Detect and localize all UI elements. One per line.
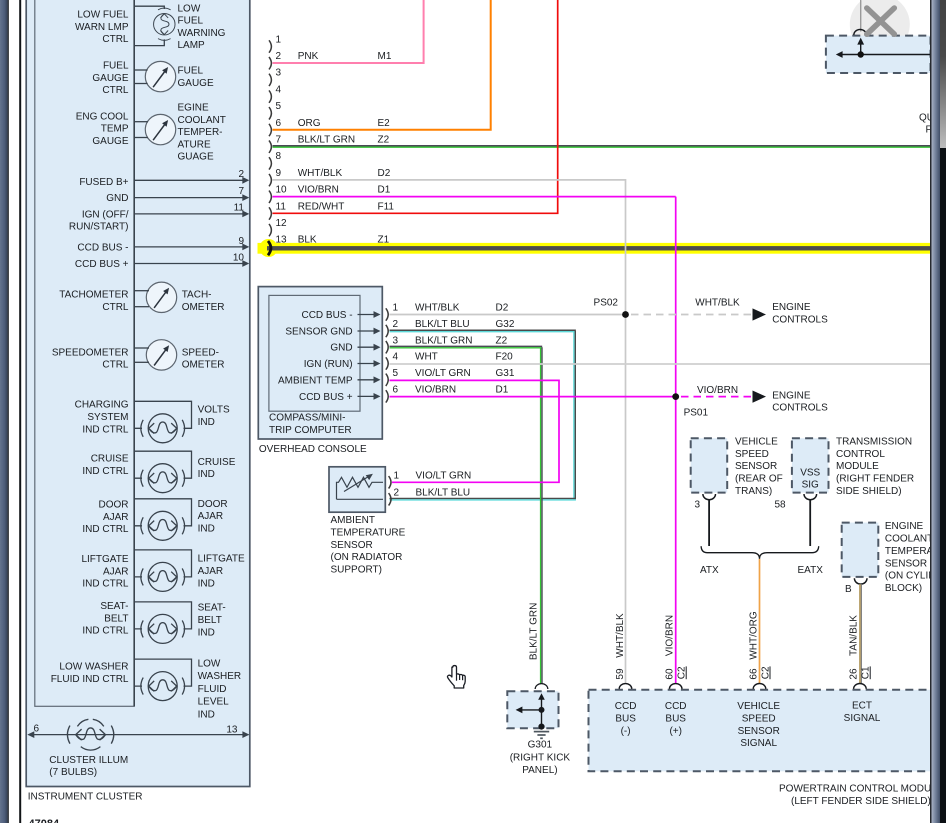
svg-text:SENSOR: SENSOR <box>331 540 373 551</box>
engine coolant temperature sensor box <box>842 521 946 595</box>
svg-text:FLUID: FLUID <box>198 684 227 695</box>
svg-text:7: 7 <box>276 135 282 146</box>
instrument cluster inner label box <box>35 0 134 706</box>
svg-text:PNK: PNK <box>298 51 319 62</box>
door ajar ind lamp <box>134 499 191 541</box>
svg-text:TEMPER-: TEMPER- <box>178 127 223 138</box>
svg-text:CCD BUS +: CCD BUS + <box>75 259 129 270</box>
wire WHT/BLK D2 (pin 9) <box>273 180 626 315</box>
thermistor symbol <box>337 474 384 500</box>
svg-text:DOOR: DOOR <box>198 499 228 510</box>
fuel gauge symbol <box>134 61 176 91</box>
svg-text:BLK/LT GRN: BLK/LT GRN <box>529 603 540 660</box>
svg-text:59: 59 <box>615 668 626 680</box>
instrument cluster outer box <box>26 0 250 787</box>
svg-text:3: 3 <box>393 335 399 346</box>
svg-text:AMBIENT: AMBIENT <box>331 515 375 526</box>
svg-text:(REAR OF: (REAR OF <box>735 474 783 485</box>
svg-text:SIGNAL: SIGNAL <box>844 713 881 724</box>
svg-text:TRANSMISSION: TRANSMISSION <box>836 436 912 447</box>
svg-text:CCD BUS -: CCD BUS - <box>301 310 352 321</box>
wire BLK/LT GRN Z2 (pin 7) horizontal two-tone <box>273 146 931 147</box>
wire TCM pin 58 <box>809 500 811 546</box>
svg-text:VIO/LT GRN: VIO/LT GRN <box>415 368 471 379</box>
svg-text:AJAR: AJAR <box>103 566 129 577</box>
wire VIO/BRN D1 (pin 10) <box>273 196 676 198</box>
svg-text:TAN/BLK: TAN/BLK <box>849 615 860 656</box>
svg-text:D1: D1 <box>496 385 509 396</box>
svg-text:AJAR: AJAR <box>103 512 129 523</box>
svg-text:58: 58 <box>775 500 787 511</box>
svg-text:GAUGE: GAUGE <box>92 136 128 147</box>
svg-text:CCD: CCD <box>665 701 687 712</box>
svg-text:CONTROLS: CONTROLS <box>772 314 828 325</box>
svg-text:2: 2 <box>394 488 400 499</box>
top-right box internal wire <box>836 38 931 58</box>
svg-text:3: 3 <box>276 68 282 79</box>
svg-text:WARNING: WARNING <box>178 28 226 39</box>
svg-text:CONTROL: CONTROL <box>836 449 885 460</box>
PCM pin labels <box>615 701 881 750</box>
dashed VIO/BRN to engine controls <box>681 385 828 414</box>
gnd pin arrow 7 <box>134 186 249 201</box>
svg-text:CTRL: CTRL <box>102 34 129 45</box>
fused B+ pin arrow 2 <box>134 169 249 184</box>
svg-text:6: 6 <box>276 118 282 129</box>
svg-text:GUAGE: GUAGE <box>178 152 214 163</box>
svg-text:LIFTGATE: LIFTGATE <box>81 554 128 565</box>
svg-text:8: 8 <box>276 151 282 162</box>
svg-text:WARN LMP: WARN LMP <box>75 22 129 33</box>
svg-text:PS01: PS01 <box>684 408 709 419</box>
sensor captions <box>331 515 406 576</box>
svg-text:WHT: WHT <box>415 352 438 363</box>
svg-text:ATX: ATX <box>700 565 719 576</box>
svg-text:VIO/LT GRN: VIO/LT GRN <box>416 471 472 482</box>
svg-text:SENSOR GND: SENSOR GND <box>285 327 352 338</box>
svg-text:C2: C2 <box>761 666 772 679</box>
low fuel warning lamp symbol <box>134 6 175 45</box>
brace joining ATX/EATX <box>701 546 819 559</box>
svg-text:FUEL: FUEL <box>178 16 204 27</box>
svg-text:SPEED: SPEED <box>742 713 776 724</box>
svg-text:VIO/BRN: VIO/BRN <box>298 185 339 196</box>
ccd bus - pin arrow 9 <box>134 236 249 250</box>
pin 13 connector arc (black over highlight) <box>268 241 271 255</box>
tachometer symbol <box>134 282 177 312</box>
svg-text:IND CTRL: IND CTRL <box>82 524 129 535</box>
svg-text:CRUISE: CRUISE <box>198 457 236 468</box>
wire VIO/BRN D1 console pin6 <box>390 396 676 398</box>
svg-text:SIGNAL: SIGNAL <box>740 738 777 749</box>
wire PNK M1 (pin 2) <box>273 0 424 63</box>
svg-text:FUEL: FUEL <box>178 66 204 77</box>
svg-text:LOW: LOW <box>198 658 221 669</box>
splice PS02 <box>594 298 629 318</box>
svg-text:Z2: Z2 <box>378 135 390 146</box>
svg-text:IND: IND <box>198 627 215 638</box>
svg-text:BLK: BLK <box>298 235 317 246</box>
svg-text:IND: IND <box>198 524 215 535</box>
svg-text:BLK/LT BLU: BLK/LT BLU <box>415 319 470 330</box>
svg-text:4: 4 <box>276 84 282 95</box>
svg-text:COMPASS/MINI-: COMPASS/MINI- <box>269 412 345 423</box>
svg-text:IND CTRL: IND CTRL <box>82 579 129 590</box>
svg-text:Z2: Z2 <box>496 335 508 346</box>
svg-text:SENSOR: SENSOR <box>735 461 777 472</box>
svg-text:ENG COOL: ENG COOL <box>76 112 129 123</box>
wire WHT/BLK vertical PS02 to PCM <box>625 315 627 684</box>
wire VIO/LT GRN G31 console pin5 <box>390 380 560 482</box>
svg-text:VSS: VSS <box>800 467 820 478</box>
svg-text:LOW WASHER: LOW WASHER <box>59 662 128 673</box>
svg-text:SPEEDOMETER: SPEEDOMETER <box>52 347 129 358</box>
svg-text:SPEED: SPEED <box>735 449 769 460</box>
svg-text:LIFTGATE: LIFTGATE <box>198 554 245 565</box>
svg-text:WHT/BLK: WHT/BLK <box>415 303 460 314</box>
svg-text:CCD BUS +: CCD BUS + <box>299 392 353 403</box>
svg-text:ATURE: ATURE <box>178 139 211 150</box>
svg-text:CONTROLS: CONTROLS <box>772 403 828 414</box>
svg-text:(+): (+) <box>669 726 682 737</box>
svg-text:F20: F20 <box>496 352 514 363</box>
svg-text:TEMP: TEMP <box>101 124 129 135</box>
svg-text:BLK/LT BLU: BLK/LT BLU <box>416 488 471 499</box>
wire RED/WHT F11 (pin 11) <box>273 0 558 213</box>
svg-text:CCD: CCD <box>615 701 637 712</box>
svg-text:6: 6 <box>34 724 40 735</box>
close button X <box>867 8 895 34</box>
svg-text:WHT/ORG: WHT/ORG <box>749 611 760 660</box>
seat-belt ind lamp <box>134 602 191 644</box>
sensor connector labels <box>394 471 472 499</box>
svg-text:10: 10 <box>276 185 288 196</box>
svg-text:TACH-: TACH- <box>182 290 212 301</box>
svg-text:VIO/BRN: VIO/BRN <box>697 385 738 396</box>
svg-text:G301: G301 <box>528 740 553 751</box>
transmission control module box <box>775 436 915 510</box>
svg-text:EATX: EATX <box>798 565 824 576</box>
svg-text:9: 9 <box>238 236 244 247</box>
svg-text:2: 2 <box>393 319 399 330</box>
svg-text:VOLTS: VOLTS <box>198 405 230 416</box>
svg-text:COOLANT: COOLANT <box>885 534 933 545</box>
wire into top-right dashed box <box>860 0 862 32</box>
svg-text:FUEL: FUEL <box>103 61 129 72</box>
cluster illumination bulbs wire 6-13 <box>27 724 249 738</box>
svg-text:GND: GND <box>330 343 352 354</box>
hand cursor <box>447 666 465 688</box>
cluster left labels <box>51 10 129 685</box>
sensor connector arcs <box>389 476 391 505</box>
svg-text:F11: F11 <box>378 201 395 212</box>
svg-text:7: 7 <box>238 186 244 197</box>
svg-text:CCD BUS -: CCD BUS - <box>77 242 128 253</box>
speedometer symbol <box>134 340 177 370</box>
svg-text:(7 BULBS): (7 BULBS) <box>49 767 97 778</box>
cluster connector pins 1-13 <box>269 40 271 236</box>
svg-text:CTRL: CTRL <box>102 302 129 313</box>
left window strip <box>0 0 9 823</box>
wire TAN/BLK ECT pin B <box>860 584 861 684</box>
svg-text:CRUISE: CRUISE <box>91 454 129 465</box>
svg-text:DOOR: DOOR <box>99 499 129 510</box>
wire VIO/BRN vertical to PS01 and PCM <box>675 197 677 684</box>
G301 internal arrows and ground <box>516 693 550 738</box>
svg-text:SEAT-: SEAT- <box>198 603 226 614</box>
svg-text:EGINE: EGINE <box>178 103 209 114</box>
svg-text:ORG: ORG <box>298 118 321 129</box>
svg-text:2: 2 <box>276 51 282 62</box>
svg-text:1: 1 <box>276 34 282 45</box>
cluster illumination bulb symbol <box>67 719 113 750</box>
svg-text:IND: IND <box>198 578 215 589</box>
overhead console box <box>258 287 382 439</box>
svg-text:(RIGHT FENDER: (RIGHT FENDER <box>836 474 914 485</box>
console pin arrows <box>358 311 381 400</box>
svg-text:FLUID IND CTRL: FLUID IND CTRL <box>51 674 129 685</box>
wire WHT/BLK D2 console pin1 <box>390 314 626 316</box>
svg-text:WASHER: WASHER <box>198 671 242 682</box>
svg-text:SPEED-: SPEED- <box>182 347 219 358</box>
svg-text:OMETER: OMETER <box>182 302 225 313</box>
svg-text:LEVEL: LEVEL <box>198 697 230 708</box>
cluster right-side component name labels <box>178 3 245 720</box>
dashed WHT/BLK to engine controls <box>631 297 828 325</box>
svg-text:VEHICLE: VEHICLE <box>737 701 780 712</box>
divider line (inner box right edge) <box>133 0 135 706</box>
svg-text:IND: IND <box>198 469 215 480</box>
svg-text:COOLANT: COOLANT <box>178 115 226 126</box>
ign pin arrow 11 <box>134 203 249 218</box>
svg-text:G31: G31 <box>496 368 515 379</box>
svg-text:SIG: SIG <box>802 480 819 491</box>
svg-text:IND CTRL: IND CTRL <box>82 626 129 637</box>
svg-text:(RIGHT KICK: (RIGHT KICK <box>510 752 571 763</box>
svg-text:PANEL): PANEL) <box>522 765 557 776</box>
svg-text:RUN/START): RUN/START) <box>69 222 129 233</box>
right scrollbar area (covers overflow) <box>930 0 946 823</box>
splice PS01 <box>672 393 708 418</box>
cluster connector pin numbers <box>276 34 288 245</box>
svg-text:Z1: Z1 <box>378 235 390 246</box>
engine coolant temperature gauge symbol <box>134 114 176 144</box>
svg-text:(ON RADIATOR: (ON RADIATOR <box>331 552 403 563</box>
svg-text:11: 11 <box>276 201 287 212</box>
svg-text:(-): (-) <box>621 726 631 737</box>
svg-text:AJAR: AJAR <box>198 511 224 522</box>
svg-text:TEMPERATURE: TEMPERATURE <box>331 527 406 538</box>
top-right dashed connector box <box>826 29 931 73</box>
page left border <box>19 0 21 823</box>
low washer fluid ind lamp <box>134 659 191 701</box>
svg-text:TRIP COMPUTER: TRIP COMPUTER <box>269 425 352 436</box>
wire VSS pin 3 <box>708 500 710 546</box>
svg-text:IND: IND <box>198 710 215 721</box>
svg-text:IND: IND <box>198 417 215 428</box>
liftgate ajar ind lamp <box>134 550 191 592</box>
svg-text:60: 60 <box>665 668 676 680</box>
svg-text:LOW: LOW <box>178 3 201 14</box>
svg-text:OMETER: OMETER <box>182 360 225 371</box>
svg-text:GAUGE: GAUGE <box>92 73 128 84</box>
svg-text:INSTRUMENT CLUSTER: INSTRUMENT CLUSTER <box>28 792 143 803</box>
svg-text:MODULE: MODULE <box>836 461 879 472</box>
wire ORG E2 (pin 6) <box>273 0 491 130</box>
svg-text:(LEFT FENDER SIDE SHIELD): (LEFT FENDER SIDE SHIELD) <box>791 796 931 807</box>
svg-text:IGN (RUN): IGN (RUN) <box>304 359 353 370</box>
svg-text:CHARGING: CHARGING <box>75 400 129 411</box>
volts ind lamp <box>134 401 191 443</box>
svg-text:SUPPORT): SUPPORT) <box>331 565 383 576</box>
svg-text:IND CTRL: IND CTRL <box>82 466 129 477</box>
svg-text:GND: GND <box>106 193 128 204</box>
svg-text:TRANS): TRANS) <box>735 486 772 497</box>
svg-text:12: 12 <box>276 218 288 229</box>
svg-text:26: 26 <box>849 668 860 680</box>
svg-text:D2: D2 <box>496 303 509 314</box>
svg-text:FUSED B+: FUSED B+ <box>79 177 128 188</box>
svg-text:WHT/BLK: WHT/BLK <box>298 168 343 179</box>
svg-text:OVERHEAD CONSOLE: OVERHEAD CONSOLE <box>259 444 367 455</box>
svg-text:SEAT-: SEAT- <box>100 601 128 612</box>
svg-text:TACHOMETER: TACHOMETER <box>59 290 128 301</box>
svg-text:13: 13 <box>276 235 288 246</box>
svg-text:LOW FUEL: LOW FUEL <box>77 10 129 21</box>
svg-text:SIDE SHIELD): SIDE SHIELD) <box>836 486 902 497</box>
svg-text:CTRL: CTRL <box>102 85 129 96</box>
svg-text:10: 10 <box>233 252 245 263</box>
svg-text:ENGINE: ENGINE <box>772 390 811 401</box>
cluster illum label <box>49 755 128 778</box>
svg-text:4: 4 <box>393 352 399 363</box>
svg-text:BLOCK): BLOCK) <box>885 583 922 594</box>
svg-text:IND CTRL: IND CTRL <box>82 424 129 435</box>
svg-text:SENSOR: SENSOR <box>738 726 780 737</box>
cruise ind lamp <box>134 451 191 493</box>
svg-text:ENGINE: ENGINE <box>885 521 924 532</box>
svg-text:BUS: BUS <box>665 713 686 724</box>
svg-text:1: 1 <box>393 303 399 314</box>
svg-text:BUS: BUS <box>615 713 636 724</box>
svg-text:VIO/BRN: VIO/BRN <box>415 385 456 396</box>
svg-text:AMBIENT TEMP: AMBIENT TEMP <box>278 375 353 386</box>
svg-text:BELT: BELT <box>104 613 128 624</box>
svg-text:CLUSTER ILLUM: CLUSTER ILLUM <box>49 755 128 766</box>
ambient temperature sensor box <box>329 467 385 512</box>
svg-text:PS02: PS02 <box>594 298 619 309</box>
svg-text:47084: 47084 <box>29 818 60 823</box>
svg-text:POWERTRAIN CONTROL MODULE: POWERTRAIN CONTROL MODULE <box>779 783 944 794</box>
svg-text:BLK/LT GRN: BLK/LT GRN <box>298 135 355 146</box>
svg-text:66: 66 <box>749 668 760 680</box>
rotated wire labels <box>529 603 872 680</box>
wire WHT F20 console pin4 <box>390 363 931 365</box>
svg-text:VIO/BRN: VIO/BRN <box>665 615 676 656</box>
svg-text:B: B <box>845 584 852 595</box>
svg-text:SYSTEM: SYSTEM <box>87 412 128 423</box>
console pin labels <box>278 310 353 403</box>
svg-text:1: 1 <box>394 471 400 482</box>
svg-text:IGN (OFF/: IGN (OFF/ <box>82 209 129 220</box>
console connector labels <box>393 303 515 396</box>
svg-text:E2: E2 <box>378 118 391 129</box>
vehicle speed sensor box <box>691 436 783 510</box>
svg-text:C2: C2 <box>677 666 688 679</box>
svg-text:13: 13 <box>226 725 238 736</box>
wire BLK Z1 highlighted yellow (pin 13) <box>258 239 931 257</box>
wire WHT/ORG to PCM <box>759 559 761 684</box>
svg-text:ENGINE: ENGINE <box>772 302 811 313</box>
svg-text:M1: M1 <box>378 51 392 62</box>
svg-text:5: 5 <box>393 368 399 379</box>
svg-text:BELT: BELT <box>198 615 222 626</box>
svg-text:RED/WHT: RED/WHT <box>298 201 345 212</box>
svg-text:WHT/BLK: WHT/BLK <box>615 613 626 658</box>
close button circle <box>850 0 910 54</box>
svg-text:3: 3 <box>695 500 701 511</box>
compass/mini-trip computer inner box <box>269 295 360 411</box>
powertrain control module box <box>589 684 941 772</box>
wire BLK/LT BLU G32 console pin2 <box>390 330 576 500</box>
svg-text:5: 5 <box>276 101 282 112</box>
svg-text:D1: D1 <box>378 185 391 196</box>
ground G301 box <box>507 684 558 729</box>
svg-text:AJAR: AJAR <box>198 566 224 577</box>
svg-text:SENSOR: SENSOR <box>885 558 927 569</box>
wire BLK/LT GRN Z2 console pin3 <box>390 346 543 684</box>
svg-text:ECT: ECT <box>852 701 872 712</box>
svg-text:VEHICLE: VEHICLE <box>735 436 778 447</box>
cluster connector wire labels <box>298 51 395 246</box>
svg-text:G32: G32 <box>496 319 515 330</box>
svg-text:LAMP: LAMP <box>178 40 206 51</box>
svg-text:11: 11 <box>234 203 245 214</box>
svg-text:6: 6 <box>393 385 399 396</box>
svg-text:WHT/BLK: WHT/BLK <box>695 297 740 308</box>
svg-text:D2: D2 <box>378 168 391 179</box>
svg-text:GAUGE: GAUGE <box>178 78 214 89</box>
G301 captions <box>510 740 571 776</box>
svg-text:9: 9 <box>276 168 282 179</box>
console connector arcs 1-6 <box>386 308 388 402</box>
svg-text:BLK/LT GRN: BLK/LT GRN <box>415 335 472 346</box>
svg-text:C1: C1 <box>861 666 872 679</box>
svg-text:2: 2 <box>238 169 244 180</box>
ccd bus + pin arrow 10 <box>134 252 249 267</box>
svg-text:CTRL: CTRL <box>102 360 129 371</box>
